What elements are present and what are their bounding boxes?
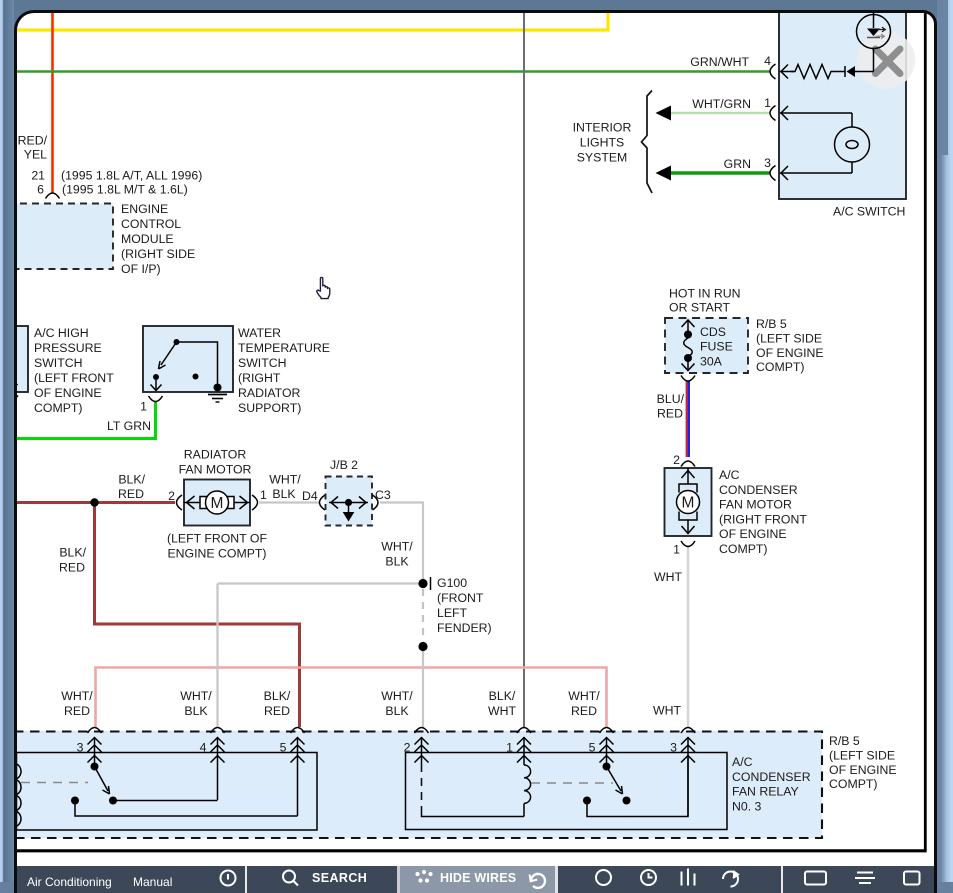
svg-text:(LEFT SIDE: (LEFT SIDE xyxy=(756,332,822,346)
svg-text:J/B 2: J/B 2 xyxy=(330,458,358,472)
svg-text:GRN: GRN xyxy=(724,157,751,171)
svg-text:LEFT: LEFT xyxy=(437,606,468,620)
svg-text:D4: D4 xyxy=(302,489,318,503)
svg-text:HOT IN RUN: HOT IN RUN xyxy=(669,287,741,301)
svg-text:3: 3 xyxy=(765,156,772,170)
svg-text:BLK: BLK xyxy=(386,555,410,569)
svg-text:(LEFT FRONT OF: (LEFT FRONT OF xyxy=(167,532,267,546)
svg-text:BLU/: BLU/ xyxy=(657,392,685,406)
svg-text:FAN MOTOR: FAN MOTOR xyxy=(179,463,252,477)
svg-text:BLK/: BLK/ xyxy=(489,689,516,703)
svg-text:OF ENGINE: OF ENGINE xyxy=(34,386,102,400)
svg-text:CDS: CDS xyxy=(700,325,726,339)
svg-text:3: 3 xyxy=(671,741,678,755)
svg-text:SYSTEM: SYSTEM xyxy=(577,151,628,165)
svg-text:G100: G100 xyxy=(437,576,467,590)
svg-text:WHT/: WHT/ xyxy=(181,689,213,703)
svg-text:C3: C3 xyxy=(375,488,391,502)
svg-text:LT GRN: LT GRN xyxy=(107,419,151,433)
svg-text:CONDENSER: CONDENSER xyxy=(732,770,811,784)
svg-text:1: 1 xyxy=(507,741,514,755)
svg-text:RED: RED xyxy=(264,704,290,718)
svg-text:FUSE: FUSE xyxy=(700,340,733,354)
svg-text:SUPPORT): SUPPORT) xyxy=(238,401,301,415)
svg-text:RED: RED xyxy=(64,704,90,718)
svg-text:2: 2 xyxy=(674,453,681,467)
svg-text:INTERIOR: INTERIOR xyxy=(573,121,632,135)
svg-text:WHT: WHT xyxy=(654,570,682,584)
svg-text:5: 5 xyxy=(280,741,287,755)
svg-text:WHT: WHT xyxy=(653,704,681,718)
svg-text:OR START: OR START xyxy=(669,301,731,315)
svg-text:R/B 5: R/B 5 xyxy=(756,317,787,331)
svg-text:WHT/: WHT/ xyxy=(62,689,94,703)
svg-text:RADIATOR: RADIATOR xyxy=(184,448,247,462)
svg-text:(RIGHT: (RIGHT xyxy=(238,371,281,385)
svg-text:BLK/: BLK/ xyxy=(119,473,146,487)
svg-text:BLK: BLK xyxy=(273,487,297,501)
svg-text:WHT/: WHT/ xyxy=(270,473,302,487)
svg-text:(1995 1.8L A/T, ALL 1996): (1995 1.8L A/T, ALL 1996) xyxy=(61,169,202,183)
svg-text:(RIGHT FRONT: (RIGHT FRONT xyxy=(719,513,807,527)
svg-text:30A: 30A xyxy=(700,355,723,369)
svg-text:SWITCH: SWITCH xyxy=(34,356,83,370)
svg-text:GRN/WHT: GRN/WHT xyxy=(691,55,750,69)
svg-text:OF I/P): OF I/P) xyxy=(121,262,161,276)
svg-text:RED: RED xyxy=(657,407,683,421)
svg-text:RADIATOR: RADIATOR xyxy=(238,386,301,400)
svg-text:FAN RELAY: FAN RELAY xyxy=(732,785,799,799)
svg-text:RED: RED xyxy=(59,561,85,575)
svg-text:4: 4 xyxy=(765,54,772,68)
svg-text:M: M xyxy=(211,495,224,512)
svg-text:RED: RED xyxy=(571,704,597,718)
svg-text:WHT/: WHT/ xyxy=(382,689,414,703)
svg-text:FENDER): FENDER) xyxy=(437,621,492,635)
svg-text:ENGINE: ENGINE xyxy=(121,202,168,216)
svg-text:1: 1 xyxy=(674,543,681,557)
svg-text:(RIGHT SIDE: (RIGHT SIDE xyxy=(121,247,195,261)
svg-text:ENGINE COMPT): ENGINE COMPT) xyxy=(168,547,267,561)
svg-text:A/C HIGH: A/C HIGH xyxy=(34,326,89,340)
svg-text:(1995 1.8L M/T & 1.6L): (1995 1.8L M/T & 1.6L) xyxy=(62,183,188,197)
svg-text:RED/: RED/ xyxy=(18,134,48,148)
svg-text:COMPT): COMPT) xyxy=(829,778,878,792)
svg-text:OF ENGINE: OF ENGINE xyxy=(829,763,897,777)
svg-text:1: 1 xyxy=(765,96,772,110)
svg-text:COMPT): COMPT) xyxy=(756,361,805,375)
svg-text:(LEFT SIDE: (LEFT SIDE xyxy=(829,749,895,763)
svg-text:A/C SWITCH: A/C SWITCH xyxy=(833,205,905,219)
svg-text:BLK/: BLK/ xyxy=(264,689,291,703)
svg-text:M: M xyxy=(682,495,695,512)
svg-text:5: 5 xyxy=(589,741,596,755)
svg-text:4: 4 xyxy=(200,741,207,755)
svg-text:21: 21 xyxy=(32,169,46,183)
svg-text:MODULE: MODULE xyxy=(121,232,174,246)
svg-text:WHT/: WHT/ xyxy=(382,540,414,554)
svg-text:RED: RED xyxy=(118,487,144,501)
svg-text:YEL: YEL xyxy=(24,148,47,162)
svg-text:(FRONT: (FRONT xyxy=(437,591,484,605)
svg-text:WHT/GRN: WHT/GRN xyxy=(693,97,752,111)
svg-text:COMPT): COMPT) xyxy=(34,401,83,415)
svg-text:CONDENSER: CONDENSER xyxy=(719,483,798,497)
svg-text:OF ENGINE: OF ENGINE xyxy=(756,346,824,360)
svg-text:6: 6 xyxy=(38,183,45,197)
svg-text:3: 3 xyxy=(77,741,84,755)
svg-text:(LEFT FRONT: (LEFT FRONT xyxy=(34,371,114,385)
svg-text:2: 2 xyxy=(404,741,411,755)
svg-text:LIGHTS: LIGHTS xyxy=(580,136,624,150)
svg-text:CONTROL: CONTROL xyxy=(121,217,181,231)
svg-text:WHT/: WHT/ xyxy=(569,689,601,703)
svg-text:A/C: A/C xyxy=(719,468,740,482)
svg-text:R/B 5: R/B 5 xyxy=(829,734,860,748)
svg-text:OF ENGINE: OF ENGINE xyxy=(719,528,787,542)
svg-text:BLK: BLK xyxy=(185,704,209,718)
svg-text:BLK/: BLK/ xyxy=(60,546,87,560)
svg-text:1: 1 xyxy=(141,400,148,414)
svg-text:SWITCH: SWITCH xyxy=(238,356,287,370)
svg-text:WHT: WHT xyxy=(488,704,516,718)
svg-text:COMPT): COMPT) xyxy=(719,542,768,556)
svg-text:FAN MOTOR: FAN MOTOR xyxy=(719,498,792,512)
svg-text:A/C: A/C xyxy=(732,755,753,769)
svg-text:BLK: BLK xyxy=(386,704,410,718)
svg-text:1: 1 xyxy=(260,488,267,502)
svg-text:TEMPERATURE: TEMPERATURE xyxy=(238,341,330,355)
svg-text:PRESSURE: PRESSURE xyxy=(34,341,102,355)
svg-text:WATER: WATER xyxy=(238,326,281,340)
svg-text:2: 2 xyxy=(169,489,176,503)
svg-text:N0. 3: N0. 3 xyxy=(732,800,762,814)
